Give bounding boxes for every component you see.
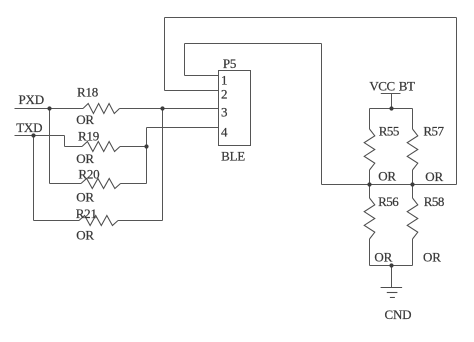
svg-text:PXD: PXD xyxy=(19,92,44,107)
svg-text:OR: OR xyxy=(76,151,94,166)
svg-text:OR: OR xyxy=(76,112,94,127)
svg-text:BLE: BLE xyxy=(221,149,245,164)
svg-text:TXD: TXD xyxy=(16,120,42,135)
svg-text:4: 4 xyxy=(221,125,228,140)
svg-text:OR: OR xyxy=(378,169,396,184)
svg-text:P5: P5 xyxy=(223,56,236,71)
svg-text:R21: R21 xyxy=(76,206,97,221)
svg-text:R55: R55 xyxy=(379,124,399,139)
svg-text:OR: OR xyxy=(423,250,441,265)
svg-text:R56: R56 xyxy=(378,194,399,209)
svg-text:OR: OR xyxy=(425,169,443,184)
svg-text:3: 3 xyxy=(221,105,227,120)
svg-text:R19: R19 xyxy=(78,129,99,144)
svg-text:VCC BT: VCC BT xyxy=(369,79,415,94)
svg-text:OR: OR xyxy=(374,250,392,265)
svg-text:OR: OR xyxy=(76,228,94,243)
svg-text:OR: OR xyxy=(76,190,94,205)
svg-text:CND: CND xyxy=(385,307,412,322)
svg-text:R58: R58 xyxy=(424,194,444,209)
svg-text:R18: R18 xyxy=(77,85,98,100)
svg-text:R57: R57 xyxy=(423,124,444,139)
svg-text:R20: R20 xyxy=(78,167,99,182)
svg-text:2: 2 xyxy=(221,87,227,102)
svg-text:1: 1 xyxy=(221,73,227,88)
